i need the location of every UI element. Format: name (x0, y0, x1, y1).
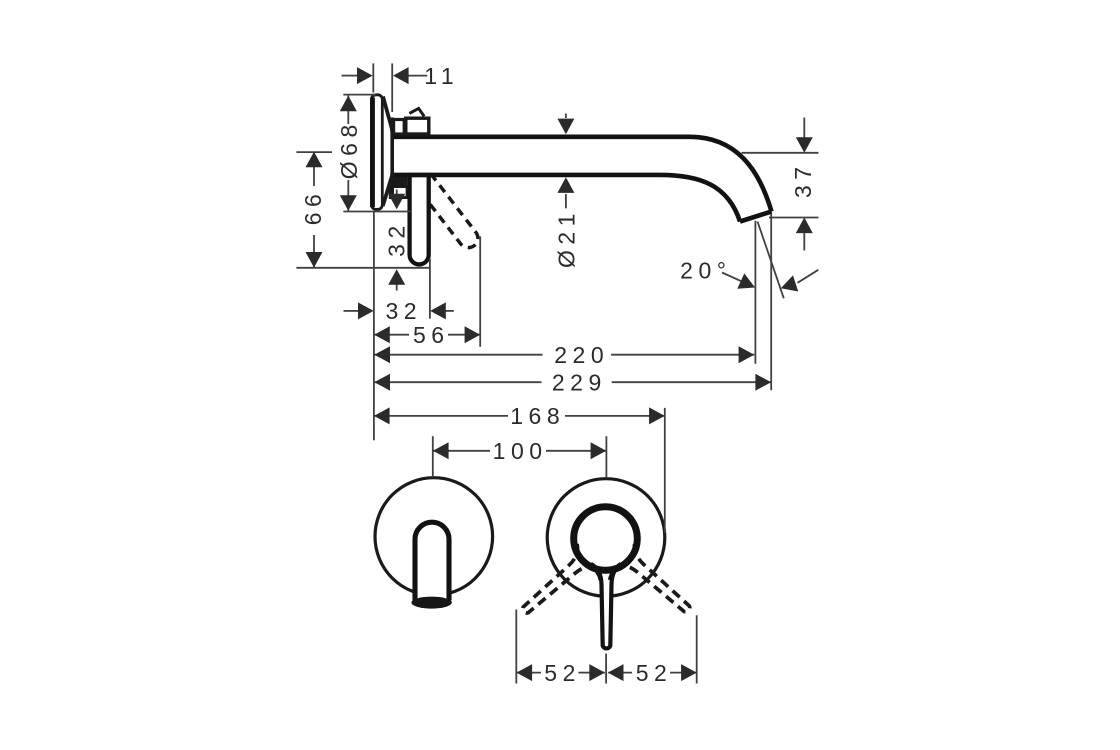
dim 37 upper tail (803, 118, 805, 140)
arrow 11 left (357, 67, 373, 84)
dim 229 line left seg (374, 381, 541, 383)
arrow 32v bottom (388, 269, 405, 285)
dim 52L ext (515, 610, 517, 684)
handle rosette circle (547, 479, 665, 597)
arrow 11 right (393, 67, 409, 84)
handle stem outline (591, 564, 621, 649)
handle stem shoulder fillet right (610, 566, 621, 580)
dim 66 line lower seg (313, 235, 315, 268)
spout tube front outline (415, 522, 449, 600)
arrow 66 bottom (306, 252, 323, 268)
arrow O68 top (340, 96, 357, 112)
dim 52R line segs (608, 672, 632, 674)
dim 220 right ext (spout tip) (754, 221, 756, 364)
dim 32h right ext (lever edge) (429, 259, 431, 319)
arrow 100 right (591, 442, 607, 459)
svg-text:Ø68: Ø68 (336, 119, 362, 179)
spout rosette circle (375, 478, 493, 596)
dim O21 upper tail (565, 114, 567, 119)
svg-text:168: 168 (510, 403, 565, 429)
arrow 32h right (430, 302, 446, 319)
arrow 220 right (739, 346, 755, 363)
arrow 20deg left (737, 273, 758, 295)
arrow 56 right (465, 326, 481, 343)
dim 168 right ext (664, 408, 666, 533)
dim 220 line right seg (611, 354, 754, 356)
arrow 100 left (433, 442, 449, 459)
dim 56 right ext (open lever tip) (479, 236, 481, 346)
wall plane ext line (373, 212, 375, 440)
20 degree right leader (798, 270, 819, 283)
arrow O68 bottom (340, 195, 357, 211)
dim 32v lower tail (396, 282, 398, 291)
dim 66 bottom ext (lever bottom) (296, 267, 430, 269)
arrow 229 right (755, 374, 771, 391)
cartridge block 2 (406, 118, 429, 134)
arrow 37 bottom (796, 218, 813, 234)
spout outlet cut face (740, 212, 772, 222)
spout tube front (white fill) (415, 522, 449, 603)
arrow 229 left (374, 374, 390, 391)
svg-text:37: 37 (790, 161, 816, 198)
lever (solid, closed position) (410, 175, 429, 264)
svg-text:32: 32 (384, 220, 410, 257)
dim 52R ext (696, 615, 698, 683)
dim 32v upper tail (396, 190, 398, 198)
dim 100 line left seg (433, 450, 490, 452)
svg-text:229: 229 (552, 370, 607, 396)
cartridge block 1 (394, 120, 405, 135)
dim 52 center ext (605, 654, 607, 684)
handle ring (574, 507, 638, 571)
handle stem white fill (591, 564, 621, 649)
arrow 52L right (589, 664, 605, 681)
handle lever open position right (dashed) (615, 544, 698, 622)
arrow 220 left (374, 346, 390, 363)
dim 11 ext line left (372, 63, 374, 92)
dim O68 top ext (343, 94, 376, 96)
arrow 32v top (388, 194, 405, 210)
svg-text:52: 52 (636, 660, 673, 686)
dim 32h left tail (344, 310, 359, 312)
lever (dashed, open position) (413, 170, 482, 252)
valve body front face (390, 118, 394, 199)
dim 66 top ext (spout axis) (296, 151, 332, 153)
spout bottom edge (392, 175, 740, 222)
spout outlet ellipse (411, 597, 451, 609)
dim O68 line upper seg (347, 96, 349, 124)
20 degree slope line (758, 222, 784, 299)
svg-text:66: 66 (300, 189, 326, 226)
dim 37 bottom ref line (769, 217, 819, 219)
dim 168 line right seg (565, 415, 665, 417)
arrow 52R left (608, 664, 624, 681)
open tab flag (409, 108, 424, 116)
svg-text:56: 56 (413, 322, 450, 348)
dim 11 left tail (342, 75, 358, 77)
svg-text:100: 100 (493, 438, 548, 464)
arrow 56 left (374, 326, 390, 343)
svg-text:52: 52 (544, 660, 581, 686)
arrow 32h left (358, 302, 374, 319)
svg-text:Ø21: Ø21 (554, 208, 580, 268)
dim 56 line left seg (374, 334, 409, 336)
arrow 37 top (796, 137, 813, 153)
dim 229 right ext (spout extreme) (770, 214, 772, 390)
dim 37 lower tail (803, 231, 805, 251)
svg-text:20°: 20° (680, 257, 731, 283)
dim 229 line right seg (612, 381, 772, 383)
arrow O21 bottom (557, 177, 574, 193)
dim 52L line segs (516, 672, 541, 674)
svg-text:220: 220 (554, 342, 609, 368)
plate front face thick edge (370, 98, 375, 208)
hub lower box (390, 187, 407, 198)
dim O68 bottom ext (343, 211, 411, 213)
arrow 66 top (306, 152, 323, 168)
dim 32h right tail (445, 310, 454, 312)
dim 220 line left seg (374, 354, 542, 356)
dim 37 top ref line (742, 152, 819, 154)
arrow 52L left (517, 664, 533, 681)
hub (lever mount) dark band (390, 176, 407, 187)
arrow O21 top (557, 119, 574, 135)
dim 100 line right seg (546, 450, 606, 452)
dim 56 line right seg (448, 334, 480, 336)
svg-text:32: 32 (386, 298, 423, 324)
dim O21 lower tail (565, 194, 567, 208)
20 degree left leader (722, 273, 753, 287)
svg-text:11: 11 (424, 63, 459, 89)
cone top edge (383, 97, 392, 133)
escutcheon plate (side view) (372, 95, 383, 210)
dim 100 left ext (432, 436, 434, 477)
dim 66 line upper seg (313, 152, 315, 186)
handle lever open position left (dashed) (513, 544, 596, 622)
arrow 20deg right (778, 275, 798, 296)
arrow 168 left (374, 407, 390, 424)
dim O68 line lower seg (347, 180, 349, 211)
spout top edge (392, 137, 771, 212)
cone bottom edge (383, 173, 392, 206)
arrow 52R right (681, 664, 697, 681)
dim 100 right ext (605, 436, 607, 477)
handle stem shoulder fillet left (591, 566, 601, 580)
dim 11 ext line right (391, 63, 393, 112)
dim 11 right tail (406, 75, 427, 77)
arrow 168 right (649, 407, 665, 424)
dim 168 line left seg (374, 415, 508, 417)
